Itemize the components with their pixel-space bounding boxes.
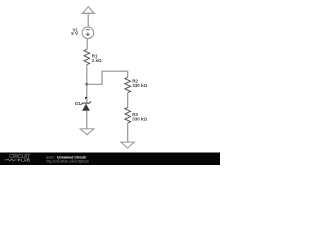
label R1 2 kOhm xyxy=(92,54,102,63)
logo resistor zigzag xyxy=(5,159,17,161)
zener diode D1 xyxy=(81,101,91,110)
label R2 330 kOhm xyxy=(132,79,147,89)
watermark bar xyxy=(0,153,220,166)
wire xyxy=(86,65,88,85)
wire xyxy=(87,13,89,27)
svg-text:http://circuitlab.com/c/6j63y6: http://circuitlab.com/c/6j63y6 xyxy=(46,159,89,163)
resistor R3 xyxy=(125,108,131,123)
label V1 5 V xyxy=(71,27,78,36)
wire xyxy=(86,98,88,103)
svg-text:330 kΩ: 330 kΩ xyxy=(132,83,147,88)
wire elbow to R2 xyxy=(87,71,128,84)
ground (left) xyxy=(80,129,93,135)
svg-text:2 kΩ: 2 kΩ xyxy=(92,58,102,63)
voltage source V1 xyxy=(82,27,94,39)
logo LAB xyxy=(18,158,21,161)
resistor R1 xyxy=(84,49,90,64)
wire xyxy=(127,123,129,142)
wire xyxy=(86,84,88,98)
svg-text:5 V: 5 V xyxy=(71,31,78,36)
node VCC arrow flag xyxy=(81,7,95,14)
resistor R2 xyxy=(125,77,131,92)
wire xyxy=(127,93,129,108)
ground (right) xyxy=(121,142,134,148)
terminal dot D1 xyxy=(85,97,87,99)
junction dot xyxy=(85,83,88,86)
label R3 330 kOhm xyxy=(132,112,147,122)
wire xyxy=(86,39,88,50)
svg-text:D1: D1 xyxy=(75,101,81,106)
wire xyxy=(86,111,88,129)
svg-text:330 kΩ: 330 kΩ xyxy=(132,117,147,122)
svg-text:LAB: LAB xyxy=(21,158,31,163)
